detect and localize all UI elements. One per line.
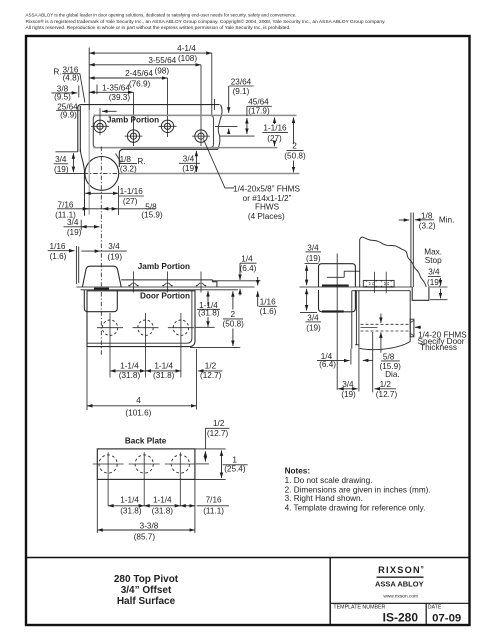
svg-text:1/4: 1/4 [241, 254, 253, 263]
dim 1/16 (1.6) right [260, 298, 277, 317]
svg-text:Half Surface: Half Surface [117, 596, 176, 607]
arm slot step [343, 271, 345, 277]
door hole 3 [168, 313, 194, 378]
svg-text:3-3/8: 3-3/8 [140, 521, 159, 530]
FHMS leader [415, 326, 421, 328]
arm bottom left extension [56, 151, 78, 153]
svg-text:ASSA ABLOY is the global leade: ASSA ABLOY is the global leader in door … [26, 13, 297, 18]
hole 1 [91, 108, 109, 135]
svg-text:3/4: 3/4 [108, 242, 120, 251]
door bottom break [360, 342, 411, 350]
dim 1/8 arrows [399, 219, 410, 221]
svg-text:R.: R. [53, 67, 61, 76]
svg-text:(3.2): (3.2) [120, 164, 137, 173]
dim 3/4 (19) below lobe [67, 218, 82, 237]
bp right extension [194, 479, 196, 533]
svg-text:1-1/16: 1-1/16 [120, 187, 144, 196]
svg-text:(6.4): (6.4) [240, 264, 257, 273]
arm screw mark 1 [128, 272, 138, 293]
stop dim soffit extension [430, 286, 448, 288]
dim 3/8 (9.5) [54, 85, 71, 102]
arm plate section lower [322, 310, 344, 312]
arm bar right end step [213, 280, 217, 287]
title strip divider [329, 558, 331, 626]
screw centerline a [374, 272, 376, 293]
svg-text:2-45/64: 2-45/64 [125, 69, 153, 78]
svg-text:(4.8): (4.8) [63, 74, 80, 83]
dim 25/64 (9.9) [57, 102, 78, 119]
upper body tick [305, 262, 319, 264]
hole3 extension line [167, 78, 169, 137]
fillet leader [116, 154, 122, 163]
door top line [81, 289, 239, 291]
frame face lines pair [75, 246, 77, 284]
screw centerline b [385, 272, 387, 293]
hole row1 right extension [215, 125, 238, 127]
hole 4 [192, 130, 210, 142]
stop dim arrows [440, 278, 442, 286]
RIXSON trademark tick [421, 566, 423, 568]
arm slot line a [344, 270, 360, 272]
3/8 tick line [78, 86, 80, 98]
title block inner line [330, 602, 470, 604]
radius leader [80, 74, 85, 103]
arm screw mark 2 [162, 272, 172, 293]
arm top extension line [213, 280, 261, 282]
left arrow at hole1 centerline [102, 110, 117, 112]
pivot horizontal centerline [84, 172, 120, 174]
top tick [195, 448, 226, 450]
bp left extension [96, 479, 98, 533]
svg-text:1-1/4: 1-1/4 [120, 361, 139, 370]
svg-text:3-55/64: 3-55/64 [148, 56, 176, 65]
dim 1/2 arrow [198, 370, 223, 372]
svg-text:5/8: 5/8 [383, 353, 395, 362]
svg-text:(27): (27) [267, 134, 282, 143]
pivot body lower [84, 290, 117, 312]
dim 3/4 (19) lower left [306, 314, 321, 333]
svg-text:1/2: 1/2 [213, 419, 225, 428]
lower body tick [300, 311, 317, 313]
dim 1-1/4 (31.8) vertical [198, 301, 220, 318]
housing top edge with corner radius [78, 105, 220, 107]
dim 3/4 (19) mid top [108, 242, 123, 261]
datum extension line [88, 48, 90, 111]
pivot body upper [82, 266, 121, 287]
housing break S-curve [218, 105, 222, 150]
housing bottom edge with fillet [119, 149, 218, 167]
svg-text:(19): (19) [67, 228, 82, 237]
dim 2 (50.8) vertical [223, 310, 245, 328]
svg-text:(1.6): (1.6) [50, 252, 67, 261]
dim 2-45/64 line [89, 77, 167, 79]
screw pilot centerline [361, 327, 378, 329]
hole1 upper extension tick [96, 85, 98, 95]
bp hole 2 [129, 452, 160, 506]
svg-text:7/16: 7/16 [206, 495, 222, 504]
svg-text:FHWS: FHWS [255, 203, 280, 212]
svg-text:(31.8): (31.8) [198, 309, 220, 318]
svg-text:(19): (19) [306, 324, 321, 333]
svg-text:1/16: 1/16 [260, 298, 276, 307]
soffit line [300, 286, 413, 288]
dim 7/16 [180, 505, 195, 507]
dim 3/4 (19) upper right [182, 154, 197, 173]
svg-text:(31.8): (31.8) [120, 507, 142, 516]
plate left edge gray extension [88, 110, 90, 215]
svg-text:Back Plate: Back Plate [125, 436, 167, 445]
arm screw mark 3 [196, 272, 206, 293]
dia dim arrows [380, 314, 382, 324]
svg-text:4-1/4: 4-1/4 [177, 44, 196, 53]
svg-text:1/4-20x5/8” FHMS: 1/4-20x5/8” FHMS [233, 185, 300, 194]
svg-text:(31.8): (31.8) [119, 371, 141, 380]
svg-text:(50.8): (50.8) [223, 320, 245, 329]
svg-text:Notes:: Notes: [285, 466, 310, 475]
plate right edge extension [211, 53, 213, 116]
svg-text:(27): (27) [123, 197, 138, 206]
svg-text:Jamb Portion: Jamb Portion [107, 115, 159, 124]
plate left extension [86, 347, 88, 410]
svg-text:(19): (19) [427, 278, 442, 287]
svg-text:(9.9): (9.9) [60, 111, 77, 120]
hole2 extension line [133, 92, 135, 146]
dim 1-1/16 (27) right [263, 124, 287, 143]
svg-text:(31.8): (31.8) [152, 507, 174, 516]
hole 2 [125, 130, 143, 142]
hole 3 [159, 120, 177, 132]
FHMS note [418, 331, 468, 353]
svg-text:(19): (19) [341, 390, 356, 399]
svg-text:(4 Places): (4 Places) [248, 212, 285, 221]
svg-text:1: 1 [232, 456, 237, 465]
svg-text:(108): (108) [178, 54, 197, 63]
dim 1-1/4 a [108, 505, 144, 507]
dim 7/16 (11.1) [55, 200, 76, 219]
plate back extension [358, 345, 360, 392]
svg-text:TEMPLATE NUMBER: TEMPLATE NUMBER [333, 604, 385, 610]
svg-text:(31.8): (31.8) [153, 371, 175, 380]
svg-text:2: 2 [292, 142, 297, 151]
housing end extension [214, 99, 216, 110]
arm bar top edge [121, 279, 212, 281]
dim 1-1/4 horizontal a [110, 370, 146, 372]
door face line [409, 291, 411, 342]
housing lobe edge curve [80, 149, 84, 216]
svg-text:www.rixson.com: www.rixson.com [383, 593, 418, 599]
svg-text:Rixson® is a registered tradem: Rixson® is a registered trademark of Yal… [26, 19, 386, 24]
gap extension lines [410, 213, 412, 288]
svg-text:3/4: 3/4 [183, 154, 195, 163]
svg-text:(19): (19) [182, 164, 197, 173]
hole row tick [195, 326, 215, 328]
step edge extension [118, 186, 120, 215]
hole row2 right extension [220, 135, 255, 137]
svg-text:1-1/4: 1-1/4 [153, 495, 172, 504]
dim 3/4 (19) upper left [306, 243, 321, 263]
pivot vertical centerline [100, 147, 102, 357]
dim 2 (50.8) right [284, 142, 306, 161]
svg-text:3/4: 3/4 [342, 380, 354, 389]
svg-text:(9.5): (9.5) [54, 93, 71, 102]
svg-text:3/4: 3/4 [67, 218, 79, 227]
svg-text:Jamb Portion: Jamb Portion [138, 262, 190, 271]
svg-text:Thickness: Thickness [420, 343, 457, 352]
dim 23/64 (9.1) [231, 77, 252, 96]
svg-text:1-35/64: 1-35/64 [102, 84, 130, 93]
stop section [412, 287, 429, 301]
bottom tick [195, 479, 226, 481]
svg-text:(9.1): (9.1) [233, 87, 250, 96]
jamb face long line [93, 114, 296, 116]
svg-text:7/16: 7/16 [58, 200, 74, 209]
svg-text:1/16: 1/16 [50, 242, 66, 251]
stop dim bottom extension [430, 299, 448, 301]
fastener note [233, 185, 300, 221]
dim 1-1/4 b [144, 505, 180, 507]
hole center tick right [196, 463, 209, 465]
dim 5/8 (15.9) [141, 202, 163, 219]
door hole 2 [133, 313, 159, 378]
plate bottom extension [190, 346, 240, 348]
left tick of centerline [56, 172, 84, 174]
drawing title text [114, 574, 179, 607]
svg-text:RIXSON: RIXSON [378, 565, 421, 575]
svg-text:1-1/4: 1-1/4 [120, 495, 139, 504]
plate bottom long line [93, 147, 277, 149]
door plate section lines [355, 291, 357, 345]
hole4 extension line [200, 65, 202, 146]
svg-text:23/64: 23/64 [231, 77, 252, 86]
pivot body side lower [319, 290, 356, 312]
svg-text:(12.7): (12.7) [376, 390, 398, 399]
pivot body side upper [319, 264, 356, 287]
screw X section a [366, 281, 378, 287]
pivot boss circle [85, 157, 119, 191]
mounting plate [93, 115, 213, 147]
svg-text:2: 2 [231, 310, 236, 319]
svg-text:(76.9): (76.9) [129, 80, 151, 89]
svg-text:(50.8): (50.8) [284, 152, 306, 161]
svg-text:2. Dimensions are given in inc: 2. Dimensions are given in inches (mm). [285, 486, 431, 495]
svg-text:(19): (19) [54, 165, 69, 174]
svg-text:(1.6): (1.6) [260, 307, 277, 316]
Max Stop label [424, 247, 442, 287]
svg-text:Min.: Min. [439, 215, 454, 224]
svg-text:DATE: DATE [428, 604, 442, 610]
vertical dim arm step 3/4 [195, 151, 197, 172]
dim 3-55/64 line [89, 64, 201, 66]
svg-text:(101.6): (101.6) [125, 408, 151, 417]
fastener leader [204, 140, 235, 188]
dim 1/8 Min (3.2) [419, 211, 455, 230]
svg-text:1/2: 1/2 [205, 361, 217, 370]
dim 1 (25.4) [224, 456, 246, 474]
door plate outline [87, 291, 195, 347]
svg-text:(12.7): (12.7) [207, 429, 229, 438]
svg-text:07-09: 07-09 [432, 613, 461, 625]
arm slot line b [327, 276, 344, 278]
jamb face line [77, 286, 255, 288]
housing outline left edges [77, 107, 79, 152]
svg-text:(17.9): (17.9) [248, 106, 270, 115]
screw head [410, 319, 414, 337]
svg-text:4. Template drawing for refere: 4. Template drawing for reference only. [285, 503, 426, 512]
svg-text:45/64: 45/64 [248, 98, 269, 107]
svg-text:1/8: 1/8 [120, 155, 132, 164]
dim 45/64 (17.9) [248, 98, 270, 116]
wall line through pivot center [119, 173, 300, 175]
svg-text:R.: R. [137, 157, 145, 166]
bp hole 3 [165, 452, 196, 506]
svg-text:3. Right Hand shown.: 3. Right Hand shown. [285, 494, 363, 503]
svg-text:All rights reserved. Reproduct: All rights reserved. Reproduction in who… [26, 25, 291, 30]
notes block [285, 466, 431, 512]
svg-text:(25.4): (25.4) [224, 465, 246, 474]
svg-text:Door Portion: Door Portion [140, 292, 190, 301]
arm plate section upper [322, 285, 349, 287]
door plate inner edge [87, 291, 192, 343]
RIXSON underline [377, 576, 424, 578]
svg-text:Dia.: Dia. [385, 370, 400, 379]
svg-text:3/4: 3/4 [428, 268, 440, 277]
door section top [352, 290, 410, 292]
svg-text:1-1/16: 1-1/16 [263, 124, 287, 133]
svg-text:(12.7): (12.7) [200, 371, 222, 380]
plate right extension [196, 349, 198, 410]
dim text 4-1/4 [102, 44, 197, 102]
svg-text:Stop: Stop [425, 256, 442, 265]
svg-text:IS-280: IS-280 [383, 611, 419, 625]
radius label R. 3/16 (4.8) [53, 65, 79, 82]
back plate outline [97, 449, 195, 480]
fillet label 1/8 (3.2) R. [120, 155, 146, 173]
dim 1/4 (6.4) side [319, 352, 336, 369]
svg-text:(85.7): (85.7) [134, 533, 156, 542]
arm channel section [363, 280, 394, 287]
dim 1/4 (6.4) [240, 254, 257, 273]
dim 3/4 (19) bottom [341, 380, 356, 399]
svg-text:3/4: 3/4 [55, 155, 67, 164]
svg-text:1/2: 1/2 [380, 380, 392, 389]
svg-text:(19): (19) [108, 252, 123, 261]
svg-text:3/4” Offset: 3/4” Offset [121, 585, 172, 596]
svg-text:3/4: 3/4 [307, 243, 319, 252]
svg-text:4: 4 [136, 396, 141, 405]
svg-text:(3.2): (3.2) [419, 221, 436, 230]
door hole 1 [97, 313, 123, 378]
screw hole axis extension [372, 332, 374, 392]
svg-text:3/4: 3/4 [307, 314, 319, 323]
dim 1/2 (12.7) bottom [376, 380, 398, 399]
svg-text:1-1/4: 1-1/4 [154, 361, 173, 370]
svg-text:(11.1): (11.1) [203, 507, 224, 516]
frame section blob [360, 237, 427, 287]
svg-text:(98): (98) [155, 67, 170, 76]
screw dashed top [361, 323, 411, 325]
svg-text:(15.9): (15.9) [141, 210, 163, 219]
pivot axis line [336, 254, 338, 391]
dim 4-1/4 line [89, 52, 212, 54]
dim 3-3/8 (85.7) [97, 529, 195, 531]
door edge line [351, 291, 353, 349]
dim 1-1/4 horizontal b [146, 370, 181, 372]
svg-text:ASSA ABLOY: ASSA ABLOY [375, 579, 424, 588]
dim 3/4 (19) left side [54, 155, 69, 174]
door edge extension [350, 349, 352, 365]
pivot pin block [94, 288, 109, 290]
dim 1-1/16 (27) lobe [120, 187, 144, 206]
screw dashed bottom [361, 330, 411, 332]
housing left edge lower extension [80, 220, 82, 231]
svg-text:(6.4): (6.4) [319, 360, 336, 369]
dim 4 (101.6) [87, 405, 197, 407]
screw X section b [381, 281, 393, 287]
dim 1/16 (1.6) left [50, 242, 67, 261]
svg-text:280 Top Pivot: 280 Top Pivot [114, 574, 179, 585]
title strip separator [26, 557, 470, 559]
svg-text:or #14x1-1/2”: or #14x1-1/2” [243, 194, 292, 203]
svg-text:(19): (19) [306, 254, 321, 263]
svg-text:1. Do not scale drawing.: 1. Do not scale drawing. [285, 476, 373, 485]
dia label 5/8 (15.9) Dia. [380, 353, 402, 380]
svg-text:1/8: 1/8 [421, 211, 433, 220]
bp hole 1 [93, 452, 124, 506]
dim 1-35/64 line [89, 91, 133, 93]
dim 1/2 (12.7) top [207, 419, 229, 438]
svg-text:(39.3): (39.3) [109, 93, 131, 102]
template/date divider [425, 603, 427, 625]
